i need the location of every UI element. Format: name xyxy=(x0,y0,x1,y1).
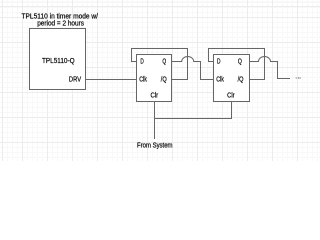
wire DRV to FF1 Clk xyxy=(86,79,137,81)
svg-text:D: D xyxy=(140,58,143,65)
svg-text:Clr: Clr xyxy=(151,92,159,99)
svg-text:/Q: /Q xyxy=(238,77,244,84)
svg-text:D: D xyxy=(217,58,221,65)
wire Q of U2 to Clk of U3 with hop xyxy=(172,57,214,80)
svg-text:period = 2 hours: period = 2 hours xyxy=(37,21,84,28)
svg-text:Q: Q xyxy=(162,58,166,65)
svg-text:Clk: Clk xyxy=(139,77,147,84)
flip-flop U2 xyxy=(137,55,172,102)
svg-text:Clr: Clr xyxy=(227,92,235,99)
wire /Q feedback to D (U3) xyxy=(209,49,265,80)
annotation: TPL5110 mode note xyxy=(22,14,99,28)
wire Clr bus to U3 xyxy=(155,102,232,119)
svg-text:Clk: Clk xyxy=(216,77,224,84)
wire Clr of U2 down to From System xyxy=(154,102,156,140)
svg-text:Q: Q xyxy=(238,58,242,65)
wire /Q feedback to D (U2) xyxy=(132,49,188,80)
svg-text:DRV: DRV xyxy=(69,77,81,84)
ellipsis continuation dots xyxy=(296,77,301,78)
svg-text:/Q: /Q xyxy=(161,77,167,84)
svg-text:TPL5110-Q: TPL5110-Q xyxy=(42,58,75,65)
flip-flop U3 xyxy=(214,55,250,102)
svg-text:TPL5110 in timer mode w/: TPL5110 in timer mode w/ xyxy=(22,14,99,21)
TPL5110 timer box U1 xyxy=(30,29,86,90)
wire Q of U3 to next stage with hop xyxy=(250,57,291,79)
svg-text:From System: From System xyxy=(137,142,173,149)
